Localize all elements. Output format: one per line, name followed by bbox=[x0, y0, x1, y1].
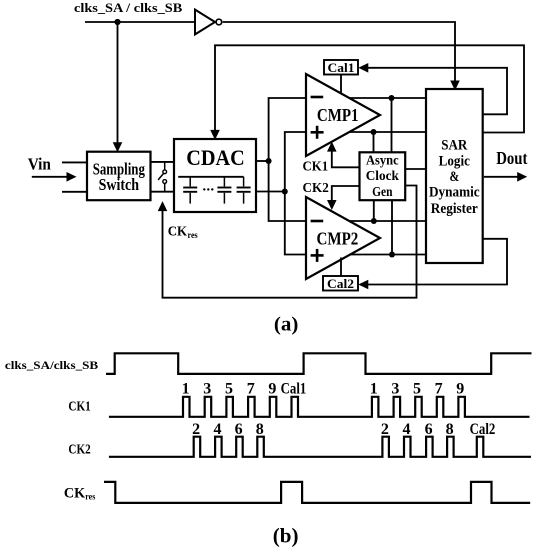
svg-text:1: 1 bbox=[182, 380, 190, 397]
svg-text:2: 2 bbox=[381, 421, 389, 438]
svg-text:&: & bbox=[449, 169, 459, 185]
svg-text:Switch: Switch bbox=[99, 175, 140, 194]
svg-text:CK2: CK2 bbox=[303, 181, 329, 196]
svg-text:8: 8 bbox=[446, 421, 454, 438]
svg-text:CK: CK bbox=[64, 485, 86, 501]
svg-text:Vin: Vin bbox=[28, 154, 51, 173]
svg-text:CK: CK bbox=[168, 225, 188, 240]
svg-text:Dout: Dout bbox=[496, 148, 527, 168]
svg-text:Gen: Gen bbox=[372, 184, 393, 199]
svg-text:1: 1 bbox=[370, 380, 378, 397]
svg-text:Cal2: Cal2 bbox=[327, 276, 354, 291]
svg-text:Register: Register bbox=[431, 201, 478, 217]
svg-text:CK1: CK1 bbox=[68, 399, 90, 414]
svg-text:7: 7 bbox=[435, 380, 443, 397]
svg-text:5: 5 bbox=[413, 380, 421, 397]
svg-text:8: 8 bbox=[256, 421, 264, 438]
svg-text:7: 7 bbox=[247, 380, 255, 397]
svg-text:CMP2: CMP2 bbox=[317, 228, 359, 248]
svg-text:CK1: CK1 bbox=[303, 159, 329, 174]
svg-text:Clock: Clock bbox=[366, 168, 400, 183]
svg-text:Cal1: Cal1 bbox=[328, 60, 355, 75]
svg-text:CDAC: CDAC bbox=[186, 145, 245, 170]
svg-text:4: 4 bbox=[214, 421, 222, 438]
svg-text:clks_SA / clks_SB: clks_SA / clks_SB bbox=[74, 1, 182, 15]
svg-text:6: 6 bbox=[235, 421, 243, 438]
svg-text:2: 2 bbox=[192, 421, 200, 438]
svg-text:SAR: SAR bbox=[441, 138, 467, 154]
svg-text:CMP1: CMP1 bbox=[317, 105, 359, 125]
svg-text:3: 3 bbox=[391, 380, 399, 397]
svg-text:Cal2: Cal2 bbox=[470, 421, 496, 438]
svg-text:(b): (b) bbox=[273, 524, 299, 548]
svg-text:(a): (a) bbox=[274, 314, 299, 336]
svg-text:9: 9 bbox=[456, 380, 464, 397]
svg-text:CK2: CK2 bbox=[68, 443, 90, 458]
svg-text:res: res bbox=[85, 492, 95, 502]
svg-text:4: 4 bbox=[403, 421, 411, 438]
svg-text:Logic: Logic bbox=[439, 153, 471, 169]
svg-text:9: 9 bbox=[268, 380, 276, 397]
svg-text:Async: Async bbox=[366, 153, 399, 168]
svg-text:3: 3 bbox=[203, 380, 211, 397]
svg-text:5: 5 bbox=[225, 380, 233, 397]
svg-text:res: res bbox=[188, 230, 199, 240]
svg-text:Dynamic: Dynamic bbox=[429, 185, 480, 201]
svg-text:clks_SA/clks_SB: clks_SA/clks_SB bbox=[5, 360, 99, 372]
svg-text:Cal1: Cal1 bbox=[281, 380, 307, 397]
svg-text:6: 6 bbox=[425, 421, 433, 438]
